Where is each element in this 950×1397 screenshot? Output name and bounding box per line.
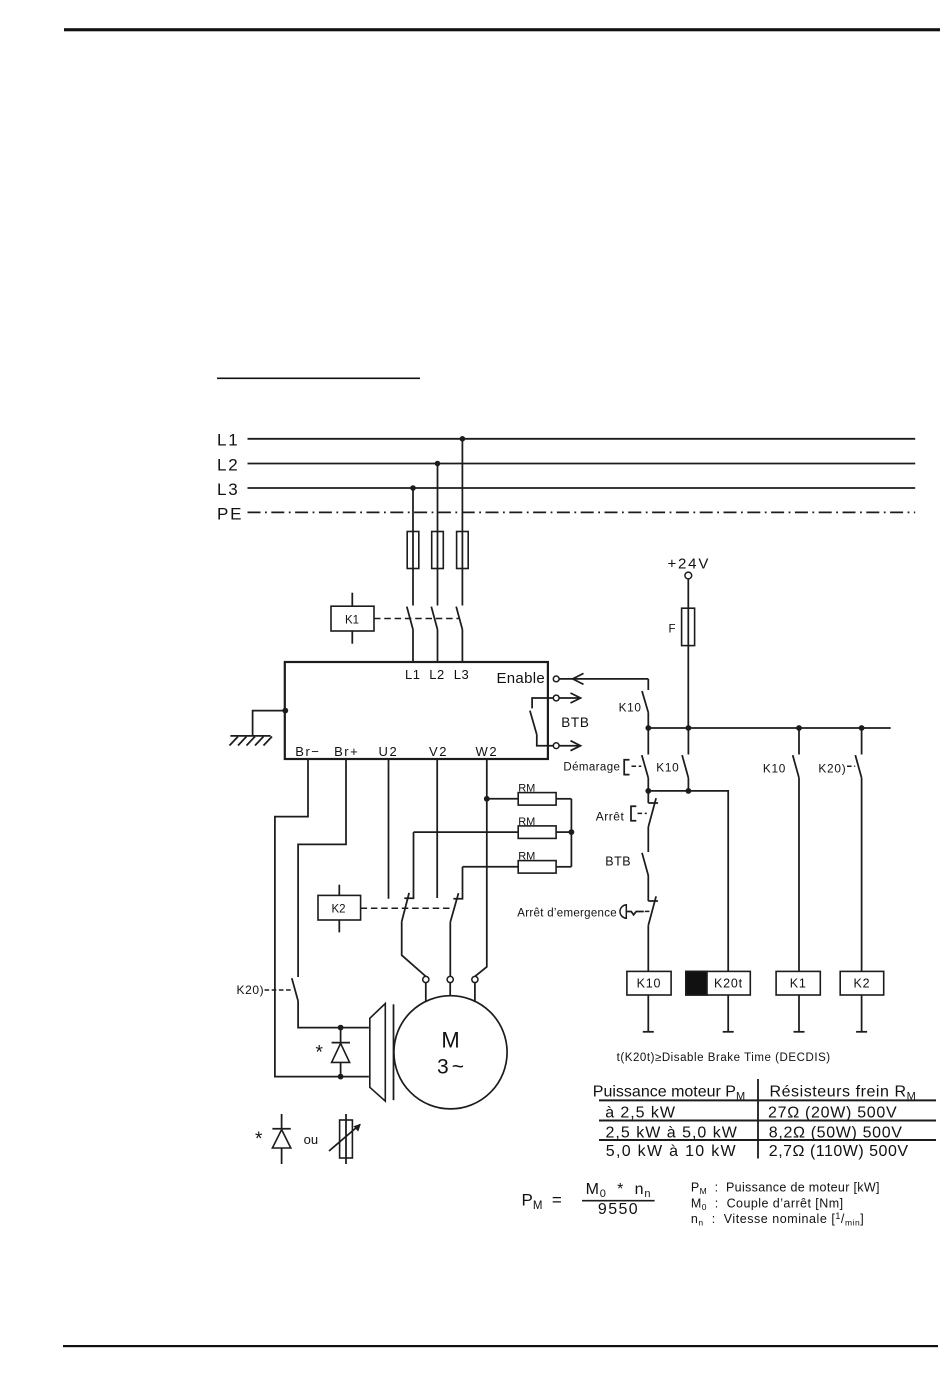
contact K20 NO (K2 branch) xyxy=(855,755,861,778)
wire L2 rail xyxy=(248,463,916,465)
svg-text:K10: K10 xyxy=(637,977,662,991)
coil K2 xyxy=(318,885,361,933)
svg-text:K20t: K20t xyxy=(714,977,743,991)
terminal +24V xyxy=(685,572,692,579)
contact K2 pole 1 xyxy=(402,893,409,922)
terminal circle Enable xyxy=(553,676,559,682)
svg-text:K1: K1 xyxy=(790,977,807,991)
wire RM3 drop with jog xyxy=(453,867,462,899)
svg-text:PE: PE xyxy=(217,505,243,524)
wire pole2 to motor xyxy=(449,922,451,976)
formula fraction bar xyxy=(582,1200,655,1202)
wire K10 seal branch upper xyxy=(687,728,689,755)
wire K2 coil tail xyxy=(856,995,867,1032)
dashed linkage K20 brake xyxy=(265,989,292,991)
contactor K1 contact pole 2 xyxy=(431,607,437,662)
svg-text:L2: L2 xyxy=(217,455,240,474)
svg-text:M0 * nn: M0 * nn xyxy=(586,1181,652,1200)
contact demarage NO xyxy=(642,755,649,778)
svg-text:K1: K1 xyxy=(345,615,359,627)
svg-text:M: M xyxy=(441,1028,459,1053)
wire L1 rail xyxy=(248,438,916,440)
wire L2 drop xyxy=(437,464,439,532)
contact emergency NC xyxy=(648,896,658,925)
varistor (legend) xyxy=(329,1114,361,1164)
svg-text:L1: L1 xyxy=(217,431,240,450)
node bus supply xyxy=(686,725,692,731)
wire L3 drop xyxy=(412,488,414,532)
svg-text:W2: W2 xyxy=(476,744,499,759)
svg-text:*: * xyxy=(316,1043,324,1064)
svg-text:U2: U2 xyxy=(379,744,399,759)
node L1 tap xyxy=(460,436,466,442)
svg-text:K2: K2 xyxy=(332,904,346,916)
wire BTB to emergency xyxy=(647,876,649,902)
wire control bus xyxy=(648,727,890,729)
wire K1 coil tail xyxy=(794,995,805,1032)
wire K20t coil tail xyxy=(723,995,734,1032)
arrow out BTB top xyxy=(559,693,580,703)
contact K2 pole 2 xyxy=(450,893,458,922)
svg-text:3~: 3~ xyxy=(437,1056,467,1079)
terminal circle BTB top xyxy=(553,695,559,701)
wire pole1 to motor xyxy=(402,922,426,977)
brake disc line xyxy=(393,1004,395,1100)
svg-text:Br−: Br− xyxy=(295,744,320,759)
svg-text:V2: V2 xyxy=(429,744,448,759)
svg-text:K10: K10 xyxy=(763,762,786,776)
wire V2 stub xyxy=(436,759,438,898)
svg-text:nn : Vitesse nominale [1/m: nn : Vitesse nominale [1/min] xyxy=(691,1211,864,1228)
wire emergency to K10 coil xyxy=(647,925,649,971)
svg-text:ou: ou xyxy=(304,1132,318,1147)
svg-text:Arrêt d’emergence: Arrêt d’emergence xyxy=(517,908,617,920)
wire RM2 drop with jog xyxy=(404,832,413,898)
dashed linkage K2 xyxy=(361,907,450,909)
contact K10 enable aux xyxy=(642,691,648,728)
wire to K2 coil xyxy=(861,778,863,972)
node bus K10 branch xyxy=(645,725,651,731)
wire to K1 coil xyxy=(798,778,800,972)
drive unit box U1 xyxy=(285,662,548,759)
emergency mushroom head xyxy=(620,905,644,919)
svg-text:Br+: Br+ xyxy=(334,744,359,759)
contactor K1 contact pole 1 xyxy=(407,607,413,662)
svg-text:Arrêt: Arrêt xyxy=(596,809,625,823)
resistor RM3 xyxy=(463,861,572,874)
svg-text:5,0 kW à 10 kW: 5,0 kW à 10 kW xyxy=(606,1143,737,1160)
contact K10 seal-in NO xyxy=(682,755,688,778)
wire K2 branch upper xyxy=(861,728,863,755)
node L2 tap xyxy=(435,461,441,467)
wire seal connector to K20t xyxy=(648,791,728,972)
push button bracket demarage xyxy=(624,760,629,775)
wire +24V to fuse xyxy=(687,579,689,608)
motor terminal a xyxy=(423,976,429,1001)
wire RM common bus xyxy=(570,799,572,867)
wire W2 run xyxy=(475,759,487,976)
wire Br+ upper run xyxy=(298,759,346,977)
terminal circle BTB bottom xyxy=(553,743,559,749)
dashed linkage K20 branch xyxy=(847,765,855,767)
ground symbol xyxy=(230,736,273,746)
svg-text:K10: K10 xyxy=(656,761,679,775)
svg-text:K2: K2 xyxy=(854,977,871,991)
svg-text:t(K20t)≥Disable Brake Time: t(K20t)≥Disable Brake Time (DECDIS) xyxy=(617,1052,831,1064)
switch BTB inside drive xyxy=(530,698,553,746)
contactor K1 contact pole 3 xyxy=(456,607,462,662)
motor M 3~ xyxy=(394,996,507,1109)
svg-text:Enable: Enable xyxy=(496,670,545,687)
node brake diode bottom xyxy=(338,1074,344,1080)
node L3 tap xyxy=(410,485,416,491)
node RM2 junction xyxy=(569,829,575,835)
wire K1 branch upper xyxy=(798,728,800,755)
push button bracket arret xyxy=(631,806,636,821)
resistor RM1 xyxy=(487,793,572,806)
svg-text:2,7Ω (110W) 500V: 2,7Ω (110W) 500V xyxy=(769,1143,909,1160)
wire fuse1 to contact xyxy=(412,569,414,606)
wire demarrage branch upper xyxy=(647,728,649,755)
svg-text:PM : Puissance de moteur: PM : Puissance de moteur [kW] xyxy=(691,1181,880,1197)
table rule 2 xyxy=(599,1139,936,1141)
table rule 1 xyxy=(599,1120,936,1122)
fuse F3 xyxy=(457,532,469,569)
coil K2 xyxy=(840,971,884,995)
dashed linkage arret xyxy=(638,812,647,814)
wire Enable feed with left arrow xyxy=(559,673,648,690)
svg-text:PM =: PM = xyxy=(522,1191,562,1213)
wire K10 coil tail xyxy=(643,995,654,1032)
resistor RM2 xyxy=(414,826,572,839)
motor terminal c xyxy=(472,976,478,1001)
wire K10 seal to node xyxy=(687,778,689,791)
ground connection wire xyxy=(253,708,289,736)
wire arret to BTB xyxy=(647,827,649,852)
svg-text:*: * xyxy=(255,1129,263,1150)
wire Br- run xyxy=(275,759,369,1077)
svg-text:M0 : Couple d’arrêt [Nm]: M0 : Couple d’arrêt [Nm] xyxy=(691,1196,844,1212)
node seal-in left xyxy=(645,788,651,794)
page bottom rule xyxy=(63,1345,938,1347)
diode D2 (legend) xyxy=(272,1114,290,1164)
wire L3 rail xyxy=(248,487,916,489)
diode D1 (suppressor across brake) xyxy=(332,1028,350,1077)
table divider vertical xyxy=(757,1079,759,1159)
svg-text:Démarage: Démarage xyxy=(563,762,620,774)
coil K10 xyxy=(627,971,671,995)
svg-text:9550: 9550 xyxy=(598,1201,639,1218)
svg-text:L2: L2 xyxy=(429,667,444,682)
svg-text:L1: L1 xyxy=(405,667,420,682)
fuse F2 xyxy=(432,532,444,569)
svg-text:27Ω (20W) 500V: 27Ω (20W) 500V xyxy=(768,1105,897,1122)
wire Br+ lower run xyxy=(298,1001,369,1028)
svg-text:BTB: BTB xyxy=(561,715,589,730)
fuse F xyxy=(682,608,695,645)
svg-text:à 2,5 kW: à 2,5 kW xyxy=(605,1105,676,1122)
svg-text:BTB: BTB xyxy=(605,855,631,869)
coil K1 xyxy=(776,971,820,995)
contact K20 brake xyxy=(292,978,298,1001)
wire PE rail (dash-dot) xyxy=(248,511,916,513)
wire U2 stub xyxy=(388,759,390,899)
wire fuse2 to contact xyxy=(437,569,439,606)
node bus K1 branch xyxy=(796,725,802,731)
page top rule xyxy=(64,28,940,31)
section title underline xyxy=(217,378,420,380)
node bus K2 branch xyxy=(859,725,865,731)
coil K1 xyxy=(331,593,374,644)
svg-text:K10: K10 xyxy=(619,701,642,715)
motor terminal b xyxy=(447,976,453,995)
node seal-in right xyxy=(686,788,692,794)
dashed linkage demarage xyxy=(632,765,642,767)
arrow out BTB bottom xyxy=(559,741,580,751)
wire fuse3 to contact xyxy=(461,569,463,606)
node brake diode top xyxy=(338,1025,344,1031)
svg-text:F: F xyxy=(669,624,676,636)
dashed linkage K1 xyxy=(374,618,460,620)
dashed linkage emergency xyxy=(645,910,650,912)
contact K10 NO (K1 branch) xyxy=(793,755,799,778)
wire arret upper stub xyxy=(647,791,649,803)
svg-text:K20): K20) xyxy=(818,762,846,776)
contact arret NC xyxy=(648,798,658,827)
coil K20t with timer block xyxy=(686,971,751,995)
svg-text:K20): K20) xyxy=(237,983,265,997)
motor brake caliper xyxy=(370,1004,386,1102)
contact BTB NO xyxy=(642,853,648,876)
node W2 RM1 tap xyxy=(484,796,490,802)
table rule under header xyxy=(599,1099,936,1101)
svg-text:L3: L3 xyxy=(454,667,469,682)
wire L1 drop xyxy=(461,439,463,532)
svg-text:L3: L3 xyxy=(217,480,240,499)
wire demarage to node xyxy=(647,778,649,791)
wire fuse to bus xyxy=(687,646,689,728)
svg-text:+24V: +24V xyxy=(667,555,710,572)
fuse F1 xyxy=(407,532,419,569)
